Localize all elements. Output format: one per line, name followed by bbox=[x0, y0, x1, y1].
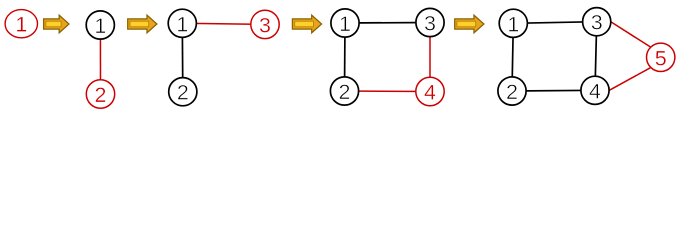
step 3: node 3 (red) bbox=[251, 10, 279, 38]
svg-text:1: 1 bbox=[339, 12, 351, 36]
step 4: wire edge 2-4 (red bottom) bbox=[345, 90, 431, 93]
arrow 4 bbox=[455, 15, 484, 33]
step 4: node 1 (black) bbox=[331, 9, 359, 37]
step 5: node 2 (black) bbox=[498, 77, 526, 105]
arrow 2 bbox=[128, 15, 157, 33]
svg-text:5: 5 bbox=[655, 46, 667, 70]
step 2: node 1 (black) bbox=[86, 11, 114, 39]
svg-text:2: 2 bbox=[95, 83, 107, 107]
arrow 1 bbox=[44, 15, 69, 33]
step 4: wire edge 1-3 (black top) bbox=[345, 22, 430, 25]
step 5: node 3 (black) bbox=[583, 8, 611, 36]
step 5: node 5 (red) bbox=[647, 43, 675, 71]
svg-text:2: 2 bbox=[506, 80, 518, 104]
step 5: wire edge 2-4 (black bottom) bbox=[512, 89, 595, 92]
step 5: node 1 (black) bbox=[499, 9, 527, 37]
svg-text:2: 2 bbox=[177, 81, 189, 105]
step 3: node 2 (black) bbox=[169, 78, 197, 106]
step 4: node 4 (red) bbox=[416, 77, 444, 105]
step 5: wire edge 3-4 (black right) bbox=[595, 22, 597, 91]
svg-text:2: 2 bbox=[339, 80, 351, 104]
svg-text:3: 3 bbox=[591, 11, 603, 35]
step 3: wire edge 1-2 (black) bbox=[181, 23, 184, 91]
step 1: node 1 (red ellipse) bbox=[5, 10, 37, 38]
svg-text:4: 4 bbox=[589, 79, 601, 103]
arrow 3 bbox=[292, 15, 321, 33]
step 4: node 3 (black) bbox=[416, 8, 444, 36]
svg-text:3: 3 bbox=[424, 12, 436, 36]
svg-text:1: 1 bbox=[94, 14, 106, 38]
step 4: node 2 (black) bbox=[330, 77, 358, 105]
svg-text:4: 4 bbox=[424, 81, 436, 105]
step 5: wire edge 4-5 (red) bbox=[610, 68, 651, 90]
step 5: wire edge 1-3 (black top) bbox=[513, 22, 596, 24]
step 3: wire edge 1-3 (red) bbox=[182, 23, 265, 24]
step 4: wire edge 3-4 (red right) bbox=[429, 23, 431, 92]
step 5: wire edge 1-2 (black left) bbox=[512, 23, 513, 91]
svg-text:3: 3 bbox=[259, 13, 271, 37]
svg-text:1: 1 bbox=[15, 13, 27, 37]
svg-text:1: 1 bbox=[507, 12, 519, 36]
step 5: wire edge 3-5 (red) bbox=[611, 22, 650, 47]
step 2: node 2 (red) bbox=[86, 80, 114, 108]
svg-text:1: 1 bbox=[176, 12, 188, 36]
step 2: wire edge 1-2 (red) bbox=[99, 25, 101, 94]
step 3: node 1 (black) bbox=[168, 9, 196, 37]
step 5: node 4 (black) bbox=[581, 76, 609, 104]
step 4: wire edge 1-2 (black left) bbox=[344, 23, 347, 91]
